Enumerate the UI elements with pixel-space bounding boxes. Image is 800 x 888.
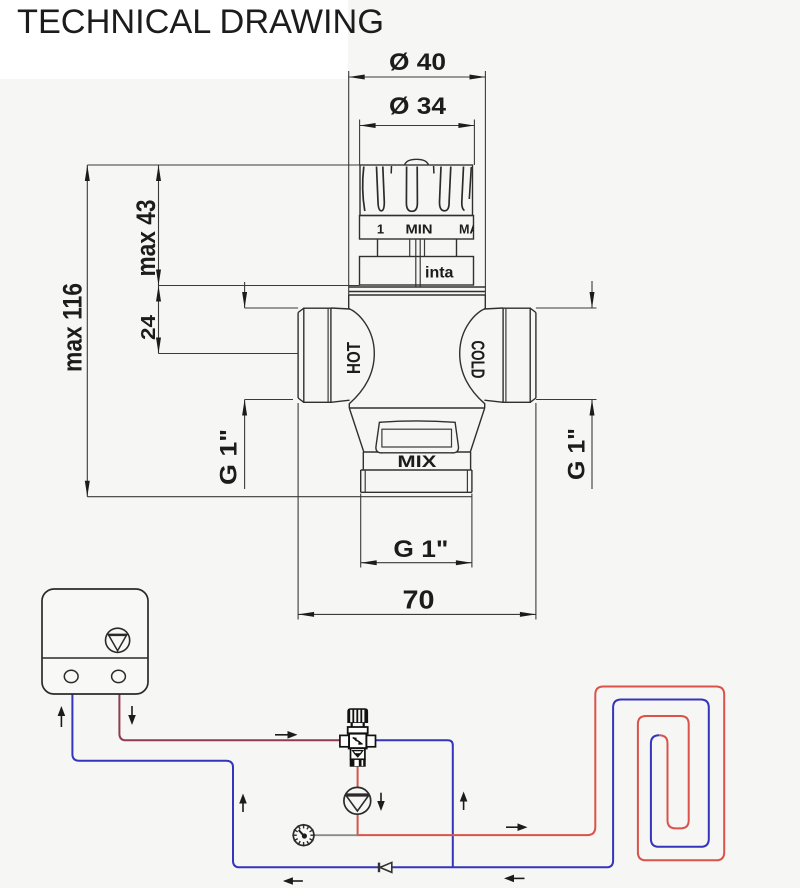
boiler port oval right [112,670,126,682]
dim max43 vertical line [158,165,160,286]
left hex nut face [304,308,331,402]
dim 24 vertical line [158,286,160,354]
pump chord [346,793,369,795]
knurl groove 1 [377,167,385,211]
arrow left on bottom return (east) [504,875,525,883]
red mixed pipe valve-pump-coil [358,687,725,861]
right hex inner line [505,308,507,402]
right port leader horizontal [536,307,597,309]
right chamfer band outer edge [535,313,537,399]
svg-text:max 43: max 43 [131,200,161,277]
arrow up beside return riser [239,794,247,813]
dim max43 top arrow [156,165,161,181]
knob scale band [360,216,474,240]
left hex inner line [327,308,329,402]
dim max43 bottom arrow [156,270,161,286]
arrow up beside cold feed [460,792,468,811]
body left outline with fillet [349,295,375,408]
flange top line [349,286,486,288]
mix label plate [376,421,459,453]
left chamfer band outer edge [297,313,299,399]
mini bottom union [350,759,366,766]
mini knob [347,708,368,723]
svg-text:G 1": G 1" [393,536,448,563]
collar right side [456,239,458,257]
dim G1 right horizontal ext [536,399,597,401]
dim Ø40 line [349,76,486,78]
body bottom line [349,407,484,409]
blue return pipe (boiler loop + floor coil return) [72,694,708,867]
arrow down right of boiler supply [128,706,136,725]
cone band line [363,451,470,453]
outlet bottom line [361,491,472,493]
mini body [349,734,367,749]
boiler pump circle [106,628,130,652]
left chamfer top diagonal [298,308,304,312]
right chamfer top diagonal [530,308,536,312]
dim G1 bottom line [361,562,472,564]
stem inner left line [415,239,417,287]
svg-text:MIN: MIN [406,222,433,237]
check valve triangle [380,862,392,872]
mini mixing valve symbol [340,708,376,766]
dim 24 top arrow [156,286,161,302]
dim Ø40 extension line left (continues as body edge) [348,71,350,295]
arrow right on hot line [275,731,298,739]
dim G1 bottom arrow left [361,560,377,565]
left port leader vertical [244,282,246,308]
boiler panel line [42,657,148,659]
right chamfer bottom diagonal [530,398,536,402]
maroon hot pipe boiler to valve [119,694,339,740]
left port leader arrow [242,292,247,308]
body top line [349,294,486,296]
stem inner right line [419,239,421,287]
boiler pump triangle [109,635,127,650]
outlet right side [471,470,473,492]
mini lower box [351,748,365,759]
left port neck top [331,308,350,309]
cone band left side [362,452,364,470]
dim max116 vertical line [86,165,88,497]
cone band right side [470,452,472,470]
gauge needle [299,830,304,836]
collar left side [377,239,379,257]
dim Ø34 extension right [473,120,475,166]
svg-text:inta: inta [425,265,454,282]
knurl left contour [363,167,365,212]
knurl groove 4 (right, partial) [462,167,465,211]
outlet left side [360,470,362,492]
body right outline with fillet [460,295,486,408]
mix cone right diagonal [470,408,484,452]
pump triangle [346,796,368,811]
outlet inner left line [364,470,366,492]
flange bottom line [349,291,486,293]
svg-text:MIX: MIX [397,452,437,471]
arrow down beside pump [377,793,385,811]
svg-text:COLD: COLD [468,341,488,379]
right hex nut face [503,308,530,402]
outlet inner right line [466,470,468,492]
stem outer right line [424,239,426,257]
extension line top (to knob) [87,164,472,166]
check valve bar [378,863,380,873]
dim 24 bottom arrow [156,338,161,354]
knurl groove 3 [439,167,450,211]
svg-text:TECHNICAL DRAWING: TECHNICAL DRAWING [17,3,384,41]
boiler port oval left [64,670,78,682]
knurl top tick a [390,166,392,174]
band text MAX clipped [459,222,487,237]
dim G1 right arrow [590,400,595,416]
svg-text:max 116: max 116 [58,283,88,372]
boiler pump chord [107,633,128,635]
pump circle [344,787,371,814]
dim G1 left vertical [244,400,246,490]
extension line at 285.5 to inta block [159,285,360,287]
mini body mixing marks [353,737,357,742]
svg-text:HOT: HOT [344,342,364,374]
dim Ø34 line [360,125,475,127]
left port neck bottom [331,400,350,402]
svg-text:24: 24 [138,314,160,340]
svg-text:Ø 34: Ø 34 [389,93,447,120]
right port leader vertical [591,281,593,308]
dim 70 arrow left [298,612,314,617]
extension line bottom (to outlet) [87,496,472,498]
thermometer gauge [292,824,315,847]
dim max116 bottom arrow [85,481,90,497]
mini right wing [367,735,376,746]
dim 70 line [298,613,536,615]
knurl right edge groove line [469,167,471,199]
knurl groove 2 (center) [406,167,417,212]
dim G1 bottom ext right [471,494,473,568]
svg-text:Ø 40: Ø 40 [389,49,446,76]
title white band [0,0,348,79]
right port leader arrow [590,292,595,308]
mini band [348,727,368,734]
mini left wing [340,735,349,746]
mix plate inner rect [382,429,452,447]
blue cold feed to valve [376,740,453,867]
extension line at 353.5 to hex [159,353,299,355]
mini knob stems [351,723,353,727]
gauge connecting line [314,834,358,836]
dim G1 bottom ext left [360,494,362,568]
dim 70 ext right [535,403,537,620]
dim max116 top arrow [85,165,90,181]
dim Ø40 arrow left [349,75,365,80]
svg-text:1: 1 [377,222,384,237]
dim G1 bottom arrow right [456,560,472,565]
svg-text:G 1": G 1" [216,429,243,485]
arrow right on mixed line [506,823,528,831]
mix cone left diagonal [349,408,364,452]
svg-text:70: 70 [403,585,435,615]
dim Ø34 arrow left [360,123,376,128]
dim 70 ext left [297,403,299,620]
dim G1 right vertical [591,400,593,490]
dim G1 left arrow [242,400,247,416]
knob dome [405,159,429,165]
dim Ø34 arrow right [458,123,474,128]
left chamfer bottom diagonal [298,398,304,402]
right port neck bottom [484,400,503,402]
dim G1 left horizontal ext [245,399,293,401]
boiler body [42,589,148,694]
right port neck top [484,308,503,309]
arrow up left of boiler return [58,706,66,727]
mini funnel mark [353,751,363,754]
stem outer left line [409,239,411,257]
left port leader horizontal [245,307,299,309]
dim Ø40 arrow right [470,75,486,80]
svg-text:G 1": G 1" [564,428,591,480]
inta block [360,257,474,286]
dim Ø40 extension line right [484,71,486,295]
knurl top tick b [433,166,435,174]
arrow left on bottom return (west) [283,877,303,885]
knob knurl outline [360,165,473,216]
outlet top line [361,469,472,471]
dim 70 arrow right [520,612,536,617]
dim Ø34 extension left [359,120,361,166]
